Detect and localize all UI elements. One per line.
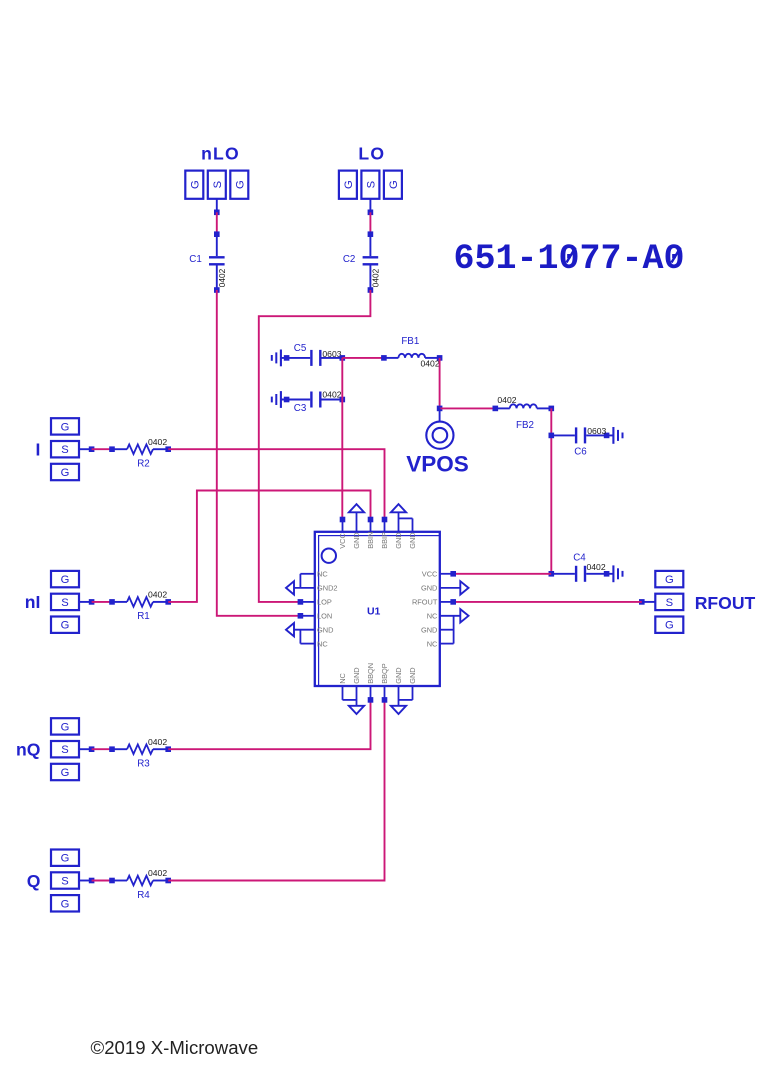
svg-text:G: G [189,180,201,189]
wire net nI to BBIN [168,491,370,602]
nQ connector pad G [51,764,79,780]
svg-text:G: G [343,180,355,189]
svg-text:R4: R4 [137,890,150,901]
ground C5 [280,350,282,367]
svg-text:GND: GND [394,667,403,683]
pin GND top 6 [412,518,414,531]
svg-text:G: G [234,180,246,189]
Q connector pad G [51,850,79,866]
svg-text:NC: NC [427,612,438,621]
svg-text:GND: GND [421,584,437,593]
pin BBIP [384,520,386,532]
svg-text:0402: 0402 [148,437,167,447]
pin NC right 6 [440,643,454,645]
svg-text:0603: 0603 [322,349,341,359]
svg-text:GND: GND [317,625,333,634]
svg-text:RFOUT: RFOUT [695,593,756,613]
svg-text:NC: NC [427,639,438,648]
nI connector pad G [51,617,79,633]
nLO connector pad G [230,171,248,199]
svg-text:0402: 0402 [587,562,606,572]
svg-text:S: S [61,876,68,888]
RFOUT connector pad S [655,594,683,610]
svg-text:0402: 0402 [217,268,227,287]
wire net nQ to BBQN [168,700,370,749]
svg-text:LOP: LOP [317,598,332,607]
svg-text:NC: NC [317,639,328,648]
svg-text:GND: GND [352,532,361,548]
svg-text:G: G [61,421,70,433]
svg-text:nLO: nLO [201,144,240,164]
I connector pad S [51,441,79,457]
wire C2 top lead [369,199,371,213]
svg-text:G: G [665,620,674,632]
Q connector pad G [51,895,79,911]
svg-text:C3: C3 [294,403,307,414]
pin GND bottom 5 with ground arrow [398,686,400,706]
wire FB1 to VPOS junction [439,358,441,409]
wire R4 input [79,880,92,882]
svg-text:0402: 0402 [421,359,440,369]
inductor FB1 [384,357,399,359]
svg-text:VPOS: VPOS [406,452,469,477]
pin LON [300,615,314,617]
nLO connector pad S [208,171,226,199]
svg-text:C4: C4 [573,553,586,564]
svg-text:R3: R3 [137,759,150,770]
svg-text:GND: GND [394,532,403,548]
svg-text:LO: LO [358,144,385,164]
pin GND bottom 6 [412,686,414,700]
resistor R4 [112,880,127,882]
svg-text:0402: 0402 [148,868,167,878]
wire C4 junction to VCC pin [453,573,551,575]
svg-text:GND: GND [421,625,437,634]
svg-text:Q: Q [27,871,41,891]
svg-text:C1: C1 [189,254,202,265]
svg-text:C6: C6 [574,446,587,457]
wire FB2 to C6 and C4 junction [550,408,552,573]
svg-text:GND: GND [408,667,417,683]
wire VPOS junction to FB2 [440,407,496,409]
svg-text:VCC: VCC [338,533,347,549]
pin GND left with ground arrow [294,629,315,631]
capacitor C2 [369,234,371,256]
pin NC left 6 [300,643,314,645]
svg-text:G: G [665,574,674,586]
svg-text:BBQP: BBQP [380,663,389,684]
svg-text:C5: C5 [294,343,307,354]
svg-text:S: S [61,744,68,756]
wire net LO to LOP [259,290,371,602]
wire R1 input [79,601,92,603]
IC U1 pin1 mark [322,549,336,563]
svg-text:BBQN: BBQN [366,663,375,684]
pin GND right with ground arrow [440,587,461,589]
svg-text:R2: R2 [137,459,150,470]
wire net VCC C3 to pin [341,358,343,520]
RFOUT connector pad G [655,617,683,633]
svg-text:G: G [61,620,70,632]
pin BBQN [370,686,372,700]
title slashed zeros [567,248,576,263]
nQ connector pad S [51,741,79,757]
wire R3 input [79,748,92,750]
pin GND top 5 with ground arrow [398,512,400,532]
svg-text:G: G [61,853,70,865]
svg-text:nI: nI [25,592,41,612]
resistor R3 [112,748,127,750]
capacitor C1 [216,234,218,256]
inductor FB2 [495,407,510,409]
pin RFOUT [440,601,453,603]
pin NC left 1 [300,573,314,575]
svg-text:S: S [365,181,377,188]
ground C4 [612,565,614,582]
wire net RFOUT [453,601,642,603]
svg-text:S: S [61,597,68,609]
svg-text:GND: GND [408,532,417,548]
svg-text:0402: 0402 [148,737,167,747]
svg-text:LON: LON [317,612,332,621]
nLO connector pad G [185,171,203,199]
capacitor C5 [281,357,310,359]
svg-text:S: S [666,597,673,609]
I connector pad G [51,418,79,434]
svg-text:0402: 0402 [371,268,381,287]
svg-text:0603: 0603 [587,426,606,436]
svg-text:VCC: VCC [422,570,438,579]
LO connector pad G [384,171,402,199]
LO connector pad G [339,171,357,199]
svg-text:0402: 0402 [148,590,167,600]
svg-text:G: G [61,767,70,779]
svg-text:RFOUT: RFOUT [412,598,438,607]
pin BBIN [370,520,372,532]
resistor R2 [112,448,127,450]
svg-text:nQ: nQ [16,740,40,760]
wire net I to BBIP [168,449,384,519]
pin GND right 5 [440,629,454,631]
pin NC bottom 1 [342,686,344,700]
pin BBQP [384,686,386,700]
capacitor C3 [281,399,310,401]
svg-text:S: S [212,181,224,188]
svg-text:GND: GND [352,667,361,683]
pin GND2 with ground arrow [294,587,315,589]
wire RFOUT connector lead [642,601,656,603]
wire C1 top lead [216,199,218,213]
svg-text:G: G [61,467,70,479]
svg-text:R1: R1 [137,611,150,622]
svg-text:FB1: FB1 [401,336,419,347]
nQ connector pad G [51,718,79,734]
svg-text:0402: 0402 [322,389,341,399]
svg-text:C2: C2 [343,254,356,265]
svg-text:BBIN: BBIN [366,532,375,549]
IC U1 body [315,532,440,686]
wire R2 input [79,448,92,450]
capacitor C4 [551,573,575,575]
svg-text:G: G [388,180,400,189]
ground C6 [612,427,614,444]
wire net nLO to LON [217,290,301,616]
I connector pad G [51,464,79,480]
LO connector pad S [361,171,379,199]
capacitor C6 [551,434,575,436]
svg-text:S: S [61,444,68,456]
svg-text:0402: 0402 [497,395,516,405]
pin VCC top [342,520,344,532]
pin NC right with ground arrow [440,615,461,617]
Q connector pad S [51,872,79,888]
svg-text:G: G [61,574,70,586]
svg-text:FB2: FB2 [516,420,534,431]
nI connector pad G [51,571,79,587]
nI connector pad S [51,594,79,610]
resistor R1 [112,601,127,603]
wire net Q to BBQP [168,700,384,881]
svg-text:BBIP: BBIP [380,532,389,549]
pin GND top 2 with ground arrow [356,512,358,532]
svg-text:G: G [61,898,70,910]
pin GND bottom 2 with ground arrow [356,686,358,706]
svg-text:G: G [61,721,70,733]
svg-text:I: I [36,440,41,460]
svg-text:GND2: GND2 [317,584,338,593]
pin VCC right [440,573,453,575]
svg-text:NC: NC [338,672,347,683]
RFOUT connector pad G [655,571,683,587]
svg-text:©2019 X-Microwave: ©2019 X-Microwave [91,1037,259,1058]
svg-text:U1: U1 [367,605,381,617]
power port VPOS [439,408,441,421]
ground C3 [280,391,282,408]
pin LOP [300,601,314,603]
svg-text:NC: NC [317,570,328,579]
wire C5 to FB1 [342,357,384,359]
